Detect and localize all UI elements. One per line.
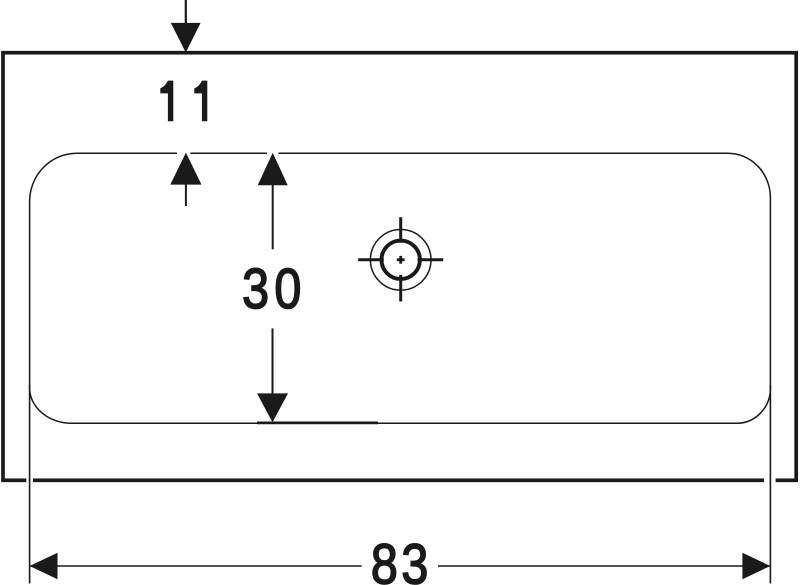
dim 83: right extension line (below bowl right edge) [769, 385, 771, 584]
faucet hole: inner thick circle [382, 241, 420, 279]
dim 11: lower arrow stem [185, 184, 187, 206]
faucet hole: south tick [399, 275, 402, 302]
svg-text:8: 8 [371, 533, 398, 585]
svg-text:3: 3 [401, 533, 428, 585]
faucet hole: outer thin circle [370, 229, 431, 290]
dim 83: left extension line (below bowl left edge) [29, 385, 31, 584]
dim 11: value text digit 1 (custom glyph) [160, 81, 173, 122]
faucet hole: east tick [418, 258, 444, 261]
svg-text:3: 3 [242, 257, 269, 321]
dim 11: lower arrow head pointing up at bowl top edge [170, 153, 201, 185]
thicker segment on bowl bottom edge [257, 421, 378, 424]
faucet hole: north tick [399, 217, 402, 243]
dim 30: lower stem [272, 328, 274, 394]
dim 83: dimension line right segment [438, 565, 770, 567]
dim 83: dimension line left segment [30, 565, 362, 567]
outer rim rectangle [3, 53, 796, 481]
dim 83: right arrow head pointing right [742, 553, 770, 579]
dim 11: upper arrow stem (above rim) [185, 0, 187, 24]
dim 11: upper arrow head pointing down at rim top edge [171, 23, 201, 53]
dim 30: lower arrow head pointing down at bowl bottom edge [257, 393, 288, 422]
faucet hole: center plus vertical [399, 256, 402, 264]
gap in bottom rim edge (right extension line crossing) [764, 477, 776, 484]
gap in bowl top edge at 11-dim arrow [177, 152, 191, 156]
bowl outline (rounded basin) [30, 153, 771, 423]
gap in bottom rim edge (left extension line crossing) [26, 477, 33, 484]
dim 11: value text digit 1 second (custom glyph) [194, 81, 207, 122]
faucet hole: west tick [358, 258, 384, 261]
dim 30: upper arrow head pointing up at bowl top edge [258, 153, 288, 185]
dim 83: left arrow head pointing left [30, 553, 58, 579]
dim 30: upper stem [272, 185, 274, 250]
gap in bowl top edge at 30-dim arrow [267, 152, 278, 156]
svg-text:0: 0 [274, 257, 301, 321]
faucet hole: center plus horizontal [397, 258, 405, 261]
